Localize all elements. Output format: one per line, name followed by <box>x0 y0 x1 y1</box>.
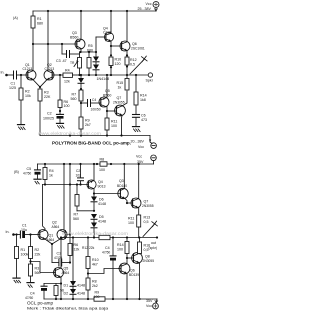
node supply return terminal <box>151 143 157 149</box>
svg-text:www.elektronika-dasar.com: www.elektronika-dasar.com <box>38 131 101 136</box>
svg-text:35V: 35V <box>146 299 153 303</box>
resistor R16 0.5 (B) <box>139 238 141 243</box>
transistor Q5 B560 <box>99 97 109 107</box>
svg-text:OCL po-amp: OCL po-amp <box>27 301 54 306</box>
caption bottom <box>27 301 108 311</box>
label Vcc A <box>138 2 152 11</box>
svg-text:C4: C4 <box>92 98 96 102</box>
svg-text:R11: R11 <box>111 120 117 124</box>
svg-text:1/25: 1/25 <box>9 86 16 90</box>
transistor Q6 2SC1061 <box>120 41 130 51</box>
svg-text:R7: R7 <box>74 213 79 217</box>
resistor R12 22k inline <box>99 235 110 239</box>
wire R10 junction to Q6 base <box>88 269 119 274</box>
node input terminal A <box>5 74 8 77</box>
svg-text:out: out <box>151 241 156 245</box>
resistor R13 0.5 <box>126 75 128 79</box>
resistor R5 680 <box>87 44 93 53</box>
svg-text:R8: R8 <box>100 158 105 162</box>
input section B <box>6 230 10 234</box>
resistor R2 10k <box>20 75 22 88</box>
wire Q4 emitter down <box>110 41 112 56</box>
diode D1 4148 (B) <box>72 238 74 282</box>
wire Q2B emitter <box>52 239 60 244</box>
svg-text:TR: TR <box>70 61 75 65</box>
wire Q1 emitter <box>33 79 40 87</box>
resistor R4 12k feedback <box>63 73 73 77</box>
resistor R6 12k (B) <box>68 244 72 256</box>
resistor R11 100 / R13 0.5 (B) <box>137 215 141 227</box>
svg-text:Q3: Q3 <box>119 179 124 183</box>
svg-text:0,5: 0,5 <box>144 248 149 252</box>
svg-text:560: 560 <box>71 97 77 101</box>
wire bottom rail A y=135.5 <box>40 135 150 137</box>
transistor Q7 2N3055 <box>115 105 126 116</box>
svg-text:R1: R1 <box>21 248 26 252</box>
wire input A <box>7 74 14 76</box>
transistor Q3 BD140 <box>118 188 128 198</box>
resistor R10 120 <box>109 57 113 66</box>
svg-text:(B): (B) <box>14 170 19 174</box>
svg-text:www.elektronika-dasar.com: www.elektronika-dasar.com <box>62 231 128 236</box>
transistor Q8 2N3055 (B) <box>132 253 143 264</box>
svg-text:D6: D6 <box>99 198 104 202</box>
wire Q3 emitter to rail <box>80 11 82 40</box>
wire bottom rail B y=299 <box>44 298 157 300</box>
resistor R11 100 <box>105 118 109 130</box>
svg-text:BD140: BD140 <box>117 184 127 188</box>
svg-text:4148: 4148 <box>98 202 106 206</box>
wire Q3B emitter down <box>125 198 127 203</box>
svg-text:Merk : Tidak diketahui, bisa a: Merk : Tidak diketahui, bisa apa saja <box>27 307 108 311</box>
svg-text:R5: R5 <box>88 44 93 48</box>
wire to R56/C4b <box>44 283 61 285</box>
svg-text:R1: R1 <box>37 17 42 21</box>
svg-text:R7: R7 <box>72 93 77 97</box>
wire Q4B collector to rail <box>93 164 95 181</box>
wire emitters down <box>51 244 53 263</box>
ground below R2 <box>18 124 25 126</box>
ground below C2 <box>57 122 64 124</box>
resistor R2 22k (B) <box>30 235 32 247</box>
capacitor C1 1/25 <box>13 71 15 79</box>
node junction dots on rail A <box>47 10 128 12</box>
svg-text:Vcc: Vcc <box>136 155 142 159</box>
transistor Q4 C438 <box>104 32 113 41</box>
svg-text:Q1: Q1 <box>49 234 54 238</box>
svg-text:0,5: 0,5 <box>130 63 135 67</box>
svg-text:680: 680 <box>87 49 93 53</box>
wire Q2 base to node <box>54 74 60 76</box>
diode D5 4148 <box>91 214 97 219</box>
capacitor C3 47/25 (B) <box>52 262 59 264</box>
svg-text:Q3: Q3 <box>72 31 77 35</box>
svg-text:Q7: Q7 <box>144 200 149 204</box>
svg-text:C1213: C1213 <box>23 67 33 71</box>
capacitor C4 47/50 (B mid) <box>112 238 114 256</box>
trimpot VR1 <box>79 52 81 58</box>
svg-text:(A): (A) <box>13 16 18 20</box>
resistor R3 22K <box>39 87 41 89</box>
resistor R8b 2k2 (B) <box>86 278 90 290</box>
transistor Q2 A564 (B) <box>57 230 67 240</box>
svg-text:Q8: Q8 <box>145 255 150 259</box>
diode D3 below output rail <box>80 75 82 78</box>
svg-text:22k: 22k <box>35 253 41 257</box>
svg-text:4148: 4148 <box>98 220 106 224</box>
ground below R3 (B) <box>27 282 34 284</box>
svg-text:B560: B560 <box>70 36 78 40</box>
svg-text:C1: C1 <box>22 224 27 228</box>
wire Q1B emitter <box>45 239 52 244</box>
svg-text:12k: 12k <box>74 248 80 252</box>
svg-text:R9: R9 <box>85 119 90 123</box>
wire bias top y=52 <box>80 51 97 53</box>
svg-text:In.: In. <box>1 71 5 75</box>
resistor R14 100 (B) <box>126 238 128 242</box>
svg-text:0,5: 0,5 <box>144 220 149 224</box>
wire Q6 emitter to rail <box>126 273 128 299</box>
capacitor C5 47/50 <box>37 164 39 170</box>
svg-text:R6: R6 <box>74 243 79 247</box>
svg-text:C5: C5 <box>27 167 32 171</box>
resistor R7 560 (B) <box>76 185 78 195</box>
diode D2 4148 (B) <box>72 287 74 290</box>
svg-text:100: 100 <box>94 295 100 299</box>
svg-text:Vcc: Vcc <box>138 145 144 149</box>
wire Q3B collector to rail <box>123 164 125 189</box>
diode D6 4148 <box>91 197 97 202</box>
wire Q7 collector <box>122 91 127 106</box>
svg-text:Q6: Q6 <box>130 269 135 273</box>
svg-text:4k7: 4k7 <box>92 263 98 267</box>
svg-text:D2: D2 <box>64 292 69 296</box>
svg-text:473: 473 <box>141 118 147 122</box>
diode D1 1N4148 <box>95 52 97 56</box>
svg-text:Q5: Q5 <box>64 267 69 271</box>
svg-text:C4: C4 <box>105 246 110 250</box>
svg-text:C6: C6 <box>141 114 146 118</box>
wire rail to terminal <box>155 299 158 303</box>
wire Q6 base <box>111 45 122 47</box>
zobel R14 1k8 + C6 <box>135 75 137 92</box>
label out spkr <box>149 241 157 250</box>
svg-text:BD139: BD139 <box>129 273 139 277</box>
wire feedback y=261.5 <box>31 262 54 273</box>
wire Q2 emitter <box>40 79 47 87</box>
svg-text:A564: A564 <box>62 271 70 275</box>
svg-text:10k: 10k <box>25 94 31 98</box>
svg-text:R2: R2 <box>25 90 30 94</box>
svg-text:102: 102 <box>76 173 82 177</box>
node Vcc terminal A <box>153 2 159 8</box>
title caption <box>52 141 131 146</box>
ground below C5 <box>34 178 41 180</box>
svg-text:100: 100 <box>111 124 117 128</box>
capacitor C4b 47/50 <box>43 284 45 286</box>
svg-text:100/25: 100/25 <box>43 117 54 121</box>
svg-text:2N3055: 2N3055 <box>142 204 154 208</box>
svg-text:120: 120 <box>115 62 121 66</box>
svg-text:R2: R2 <box>35 248 40 252</box>
svg-text:R15: R15 <box>117 81 124 85</box>
wire rail to Q2 collector x=48 <box>47 11 49 70</box>
svg-text:In.: In. <box>6 230 10 234</box>
wire Q3 collector down <box>80 49 82 53</box>
transistor Q5 A564 (B) <box>54 268 64 278</box>
svg-text:10u: 10u <box>21 228 27 232</box>
svg-text:R8: R8 <box>92 280 97 284</box>
node (B) label <box>14 170 19 174</box>
svg-text:9013: 9013 <box>98 185 106 189</box>
wire Q5B emitter to rail <box>60 285 62 300</box>
resistor 56 below Q5B <box>55 284 57 286</box>
wire Vcc stem A <box>155 8 157 12</box>
svg-text:2N3055: 2N3055 <box>113 101 125 105</box>
svg-text:47/50: 47/50 <box>23 172 31 176</box>
svg-text:C3: C3 <box>57 252 62 256</box>
capacitor C1 10u (B) <box>19 231 21 238</box>
transistor Q6 BD139 (B) <box>119 263 130 274</box>
node -35V terminal <box>153 303 159 309</box>
transistor Q3 B560 <box>75 39 85 49</box>
svg-text:Spkr: Spkr <box>146 79 154 83</box>
capacitor C2 100/25 <box>57 113 64 115</box>
svg-text:A564: A564 <box>52 225 60 229</box>
wire Q6 collector <box>126 254 128 264</box>
wire top supply rail B y=164 <box>38 163 100 165</box>
svg-text:25...38V: 25...38V <box>138 7 152 11</box>
wire Q3B base <box>94 193 120 195</box>
resistor R8 100 inline rail <box>100 162 107 166</box>
svg-text:R11: R11 <box>128 217 134 221</box>
svg-text:Vcc: Vcc <box>146 2 152 6</box>
svg-text:POLYTRON BIG-BAND OCL po-amp.: POLYTRON BIG-BAND OCL po-amp. <box>52 141 131 146</box>
svg-text:47/50: 47/50 <box>102 251 110 255</box>
svg-text:R14: R14 <box>117 243 124 247</box>
wire Q7B emitter down <box>138 207 140 215</box>
resistor R3 560 (B) <box>29 264 33 276</box>
svg-text:Q6: Q6 <box>132 42 137 46</box>
wire Q1B collector row y=184.5 <box>43 184 89 186</box>
svg-text:D1: D1 <box>64 284 69 288</box>
svg-text:R12: R12 <box>130 58 137 62</box>
svg-text:100: 100 <box>128 221 134 225</box>
resistor R1 680 <box>32 11 34 16</box>
wire output arrow diagonal B <box>143 224 155 237</box>
svg-text:R4: R4 <box>49 169 54 173</box>
svg-text:R10: R10 <box>115 58 122 62</box>
svg-text:35V: 35V <box>137 160 144 164</box>
wire R1 to node <box>32 28 34 44</box>
watermark B <box>62 231 128 236</box>
wire rail to Q2B base x=70 <box>69 164 71 244</box>
svg-text:Q2: Q2 <box>52 221 57 225</box>
wire Q5B emitter down <box>60 277 62 285</box>
svg-text:C4: C4 <box>30 292 35 296</box>
resistor R9 2k7 <box>79 117 83 129</box>
resistor R9 100 inline rail <box>94 297 105 301</box>
wire terminal to rail B <box>153 161 155 164</box>
svg-text:2k7: 2k7 <box>85 123 91 127</box>
capacitor C4 100/50 <box>81 102 88 104</box>
resistor R12 0.5 <box>125 57 129 65</box>
transistor Q7 2N3055 (B) <box>131 198 141 208</box>
wire Q1B collector up <box>43 185 46 231</box>
wire Q5B collector up <box>60 238 62 269</box>
capacitor C6 473 <box>133 114 140 116</box>
resistor R1 100k (B) <box>16 235 18 247</box>
svg-text:12k: 12k <box>64 80 70 84</box>
svg-text:1k: 1k <box>49 174 53 178</box>
wire Q1 collector <box>32 44 34 71</box>
svg-text:1k8: 1k8 <box>140 98 146 102</box>
wire Q1-collector to Q3-base y=44 <box>33 43 75 45</box>
wire Q4B emitter down <box>93 189 95 197</box>
svg-text:C3 .47: C3 .47 <box>56 59 67 63</box>
ground below R1 (B) <box>13 277 20 279</box>
svg-text:Q4: Q4 <box>98 180 103 184</box>
wire Q7 emitter to rail <box>121 115 124 135</box>
node (A) label <box>13 16 18 20</box>
transistor Q1 A564 (B) <box>38 230 48 240</box>
label 1N4148 <box>97 77 110 81</box>
node input terminal B <box>12 233 15 236</box>
wire top supply rail A <box>33 10 156 12</box>
transistor Q4 9013 (B) <box>87 180 96 189</box>
svg-text:20...38V: 20...38V <box>131 139 145 143</box>
svg-text:560: 560 <box>73 217 79 221</box>
svg-text:100/50: 100/50 <box>91 108 101 112</box>
svg-text:R14: R14 <box>140 94 147 98</box>
svg-text:R3: R3 <box>44 91 49 95</box>
wire Q4 base <box>96 36 106 38</box>
wire Q7B collector to rail <box>138 164 140 199</box>
svg-text:2N3055: 2N3055 <box>143 259 155 263</box>
svg-text:47/50: 47/50 <box>25 296 33 300</box>
resistor R7a <box>79 90 83 101</box>
wire output/bias rail B y=237.5 <box>61 237 157 239</box>
svg-text:R13: R13 <box>144 216 151 220</box>
svg-text:4148: 4148 <box>77 292 85 296</box>
svg-text:C438: C438 <box>103 31 112 35</box>
wire rail A to supply terminal <box>150 136 152 144</box>
wire Q4 collector to rail <box>110 11 112 33</box>
svg-text:100: 100 <box>64 104 70 108</box>
capacitor C3 0.47 <box>61 44 63 54</box>
resistor R4 1k (B) <box>44 164 46 168</box>
wire Q6 emitter <box>126 50 128 57</box>
node Vcc 35V terminal <box>151 155 157 161</box>
svg-text:2SC1061: 2SC1061 <box>131 47 145 51</box>
svg-text:C2: C2 <box>47 112 52 116</box>
wire Q8 base <box>127 257 133 259</box>
wire Q5 emitter down <box>106 107 108 118</box>
wire Q6 collector to rail <box>126 11 128 42</box>
svg-text:Vcc: Vcc <box>146 304 152 308</box>
svg-text:Q7: Q7 <box>117 96 122 100</box>
diode D2 1N4148 <box>95 62 97 64</box>
svg-text:R3: R3 <box>35 267 40 271</box>
svg-text:C1: C1 <box>11 82 16 86</box>
wire output rail A y=75 <box>77 74 148 76</box>
svg-text:100: 100 <box>99 168 105 172</box>
node dots on y44 <box>32 43 63 45</box>
diode D4 4148 <box>91 223 97 228</box>
svg-text:D5: D5 <box>99 215 104 219</box>
svg-text:680: 680 <box>37 22 43 26</box>
svg-text:R4: R4 <box>65 69 70 73</box>
resistor R6 100 <box>59 75 61 100</box>
svg-text:100: 100 <box>117 248 123 252</box>
svg-text:22K: 22K <box>44 95 51 99</box>
resistor R10 4k7 (B) <box>87 238 89 257</box>
node Spkr terminal A <box>148 73 152 77</box>
wire Q8 emitter to rail <box>139 263 141 299</box>
svg-text:R10: R10 <box>92 258 99 262</box>
wire output arrow diagonal A <box>130 59 145 74</box>
svg-text:4148: 4148 <box>77 284 85 288</box>
svg-text:100k: 100k <box>21 253 29 257</box>
wire Q5 collector up <box>106 75 108 98</box>
wire C1 to Q1 base <box>17 74 27 76</box>
wire Q2B collector up to rail <box>63 164 65 230</box>
svg-text:1k: 1k <box>118 86 122 90</box>
capacitor C2 102 (B) <box>80 164 82 178</box>
watermark A <box>38 131 101 136</box>
svg-text:R16: R16 <box>144 244 151 248</box>
svg-text:R9: R9 <box>95 291 100 295</box>
wire input B <box>14 234 21 236</box>
ground below C6 <box>133 126 140 128</box>
transistor Q2 C1213 <box>44 70 54 80</box>
wire R7B elbow <box>77 210 94 212</box>
transistor Q1 C1213 <box>26 70 36 80</box>
svg-text:2k2: 2k2 <box>92 284 98 288</box>
svg-text:C1213: C1213 <box>45 67 55 71</box>
